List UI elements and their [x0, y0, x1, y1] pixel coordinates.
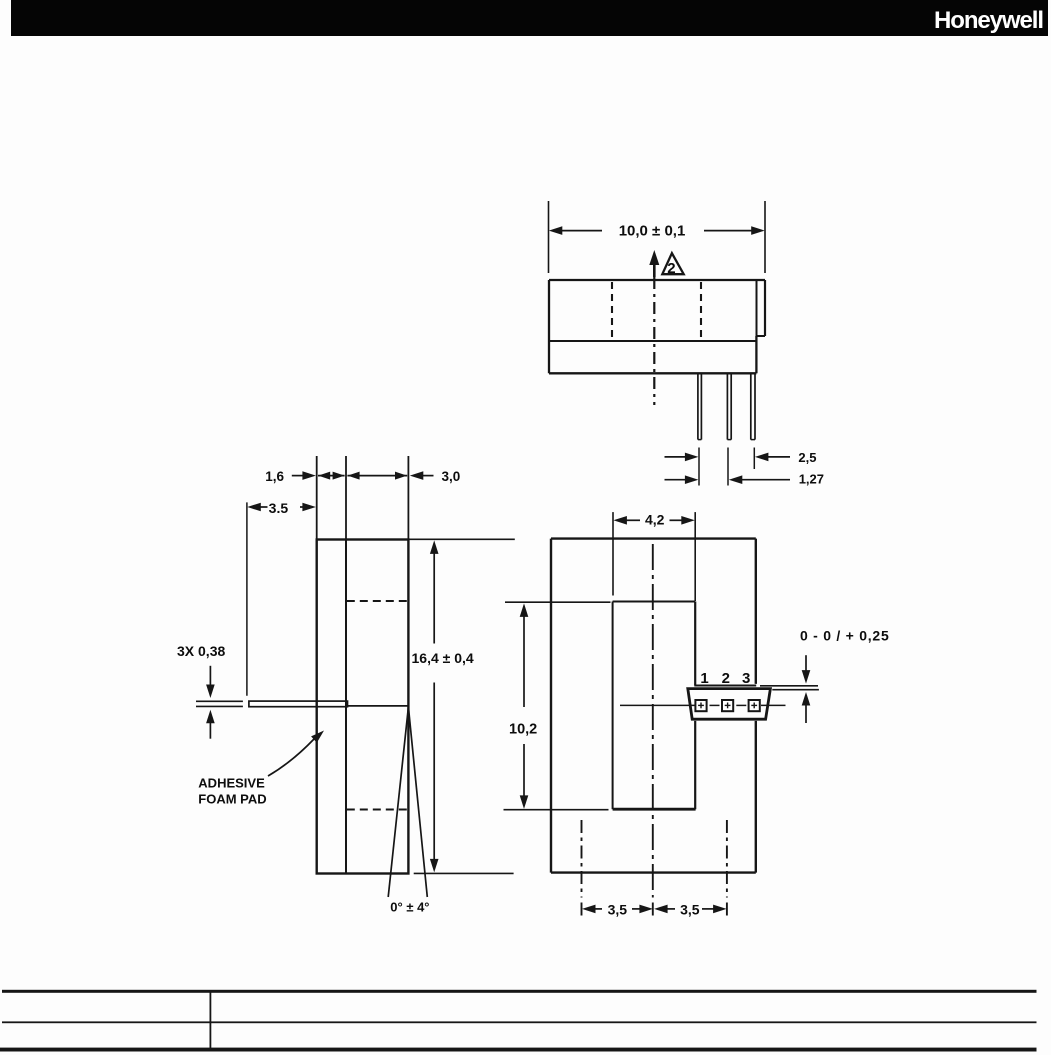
svg-text:1,6: 1,6 — [265, 469, 284, 484]
svg-text:2,5: 2,5 — [798, 450, 816, 465]
svg-text:3.5: 3.5 — [269, 500, 289, 516]
svg-text:Honeywell: Honeywell — [934, 7, 1044, 34]
svg-text:2: 2 — [667, 260, 675, 277]
svg-text:1: 1 — [700, 670, 708, 687]
svg-text:FOAM PAD: FOAM PAD — [198, 791, 266, 806]
svg-text:16,4 ± 0,4: 16,4 ± 0,4 — [412, 650, 474, 666]
svg-text:3: 3 — [742, 670, 750, 687]
svg-text:4,2: 4,2 — [645, 512, 665, 528]
svg-text:3,5: 3,5 — [680, 902, 700, 918]
svg-text:1,27: 1,27 — [799, 471, 824, 486]
svg-text:10,0 ± 0,1: 10,0 ± 0,1 — [619, 222, 686, 239]
svg-text:10,2: 10,2 — [509, 722, 537, 738]
svg-text:3X 0,38: 3X 0,38 — [177, 643, 225, 659]
svg-text:3,0: 3,0 — [442, 469, 461, 484]
svg-text:3,5: 3,5 — [608, 902, 628, 918]
svg-text:0° ± 4°: 0° ± 4° — [390, 899, 429, 914]
svg-text:0 - 0 / + 0,25: 0 - 0 / + 0,25 — [800, 628, 890, 644]
svg-text:2: 2 — [722, 670, 730, 687]
svg-text:ADHESIVE: ADHESIVE — [198, 775, 265, 790]
